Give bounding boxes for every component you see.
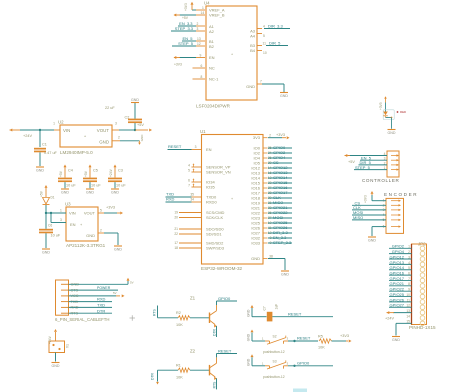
svg-text:VIN: VIN xyxy=(63,128,70,133)
svg-text:18: 18 xyxy=(174,246,178,250)
svg-text:9: 9 xyxy=(408,288,410,292)
svg-text:DTR: DTR xyxy=(97,308,105,313)
svg-text:+3V3: +3V3 xyxy=(174,63,182,67)
svg-text:VOUT: VOUT xyxy=(84,211,96,216)
svg-text:+24V: +24V xyxy=(23,134,32,138)
svg-text:GND: GND xyxy=(42,251,50,255)
svg-text:GPIO13: GPIO13 xyxy=(390,260,405,265)
svg-text:GND: GND xyxy=(86,191,94,195)
svg-text:+: + xyxy=(231,53,233,57)
svg-text:0.47 uF: 0.47 uF xyxy=(44,151,58,155)
svg-text:U3: U3 xyxy=(65,202,71,207)
svg-text:GPIO22: GPIO22 xyxy=(390,287,405,292)
svg-text:+5V: +5V xyxy=(348,160,355,164)
svg-text:+3V3: +3V3 xyxy=(340,334,349,338)
svg-text:RESET: RESET xyxy=(218,349,232,354)
svg-text:C5: C5 xyxy=(93,169,98,173)
svg-text:C1: C1 xyxy=(42,143,47,147)
svg-text:ESP32-WROOM-32: ESP32-WROOM-32 xyxy=(201,266,243,271)
svg-text:IO35: IO35 xyxy=(206,184,215,189)
svg-text:SWP/SD3: SWP/SD3 xyxy=(206,245,225,250)
svg-text:9: 9 xyxy=(200,54,202,58)
svg-text:3: 3 xyxy=(60,218,62,222)
svg-text:GND: GND xyxy=(368,239,376,243)
svg-text:8: 8 xyxy=(201,75,203,79)
svg-text:3: 3 xyxy=(384,157,386,161)
svg-text:SCK/CLK: SCK/CLK xyxy=(206,215,223,220)
svg-text:6: 6 xyxy=(201,64,203,68)
svg-text:3: 3 xyxy=(115,122,117,126)
svg-text:Z2: Z2 xyxy=(190,349,196,354)
svg-text:pushbutton-12: pushbutton-12 xyxy=(263,350,285,354)
svg-text:ENCODER: ENCODER xyxy=(384,192,418,197)
svg-text:2: 2 xyxy=(197,22,199,26)
svg-text:RESET: RESET xyxy=(297,336,311,341)
svg-text:+3V3: +3V3 xyxy=(364,195,368,203)
svg-text:5: 5 xyxy=(100,208,102,212)
svg-text:VIN: VIN xyxy=(69,211,76,216)
svg-text:2: 2 xyxy=(118,136,120,140)
svg-text:MISO: MISO xyxy=(353,215,363,220)
svg-text:POWER: POWER xyxy=(97,286,111,290)
svg-text:VOUT: VOUT xyxy=(97,128,110,133)
svg-text:GPIO4: GPIO4 xyxy=(392,249,405,254)
svg-text:RTS: RTS xyxy=(152,309,156,316)
svg-text:1uF: 1uF xyxy=(274,304,278,310)
svg-text:10 uF: 10 uF xyxy=(51,234,61,238)
svg-text:GPIO25: GPIO25 xyxy=(390,292,405,297)
svg-text:1: 1 xyxy=(202,6,204,10)
svg-text:GPIO12: GPIO12 xyxy=(390,254,405,259)
svg-text:11: 11 xyxy=(407,298,411,302)
svg-text:3V3: 3V3 xyxy=(253,135,261,140)
svg-text:7: 7 xyxy=(260,80,262,84)
svg-text:GPIO16: GPIO16 xyxy=(390,271,405,276)
svg-text:+3V3: +3V3 xyxy=(184,3,188,11)
svg-text:X1: X1 xyxy=(66,344,70,348)
svg-text:+24V: +24V xyxy=(109,168,113,177)
svg-text:C7: C7 xyxy=(263,306,267,310)
svg-text:GND: GND xyxy=(247,309,251,317)
svg-text:LM2940IMP-5.0: LM2940IMP-5.0 xyxy=(60,150,93,155)
svg-text:STEP_3.3: STEP_3.3 xyxy=(175,26,194,31)
svg-text:GPIO17: GPIO17 xyxy=(390,276,405,281)
svg-text:RED: RED xyxy=(400,110,406,114)
svg-text:4: 4 xyxy=(188,163,190,167)
svg-text:GND: GND xyxy=(247,358,251,366)
svg-text:GND: GND xyxy=(114,248,122,252)
svg-text:U4: U4 xyxy=(204,1,210,6)
svg-text:GND: GND xyxy=(280,94,288,98)
svg-text:10 uF: 10 uF xyxy=(116,184,126,188)
svg-text:C6: C6 xyxy=(48,224,52,228)
svg-text:VREF_B: VREF_B xyxy=(209,13,225,18)
svg-text:+5V: +5V xyxy=(84,170,88,177)
svg-text:GND: GND xyxy=(99,140,109,145)
svg-text:C2: C2 xyxy=(125,115,130,119)
svg-text:8: 8 xyxy=(408,282,410,286)
svg-text:22 uF: 22 uF xyxy=(105,106,115,110)
svg-text:B4: B4 xyxy=(250,48,256,53)
svg-text:+24V: +24V xyxy=(385,317,394,321)
svg-text:CONTROLLER: CONTROLLER xyxy=(362,178,399,183)
svg-text:5: 5 xyxy=(408,266,410,270)
svg-text:10: 10 xyxy=(263,51,267,55)
svg-text:10: 10 xyxy=(406,293,410,297)
svg-text:5V: 5V xyxy=(113,291,117,295)
svg-text:13: 13 xyxy=(197,37,201,41)
svg-text:13: 13 xyxy=(406,309,410,313)
svg-text:pushbutton-12: pushbutton-12 xyxy=(263,375,285,379)
svg-text:Z1: Z1 xyxy=(190,296,196,301)
svg-text:4: 4 xyxy=(263,25,265,29)
svg-text:SDI/SD1: SDI/SD1 xyxy=(206,231,222,236)
svg-text:+3V3: +3V3 xyxy=(106,205,115,209)
svg-text:GPIO27: GPIO27 xyxy=(390,303,405,308)
svg-text:LSF0204DIPWR: LSF0204DIPWR xyxy=(196,104,231,109)
svg-text:2: 2 xyxy=(408,250,410,254)
svg-text:14: 14 xyxy=(201,11,205,15)
svg-text:1: 1 xyxy=(60,208,62,212)
svg-text:B2: B2 xyxy=(209,44,215,49)
svg-text:RXD: RXD xyxy=(166,197,175,202)
svg-text:GND: GND xyxy=(251,256,260,261)
svg-text:+24V: +24V xyxy=(48,335,52,344)
svg-text:3: 3 xyxy=(195,145,197,149)
svg-text:+: + xyxy=(231,197,233,201)
svg-text:S3: S3 xyxy=(273,359,277,363)
svg-text:GPIO21: GPIO21 xyxy=(390,281,405,286)
svg-text:1: 1 xyxy=(53,122,55,126)
svg-text:DIR_5: DIR_5 xyxy=(269,41,281,46)
svg-text:GPIO0: GPIO0 xyxy=(297,360,310,365)
svg-text:AP2112K-3.3TRG1: AP2112K-3.3TRG1 xyxy=(66,243,106,248)
svg-text:1: 1 xyxy=(384,166,386,170)
svg-text:14: 14 xyxy=(406,314,410,318)
svg-text:38: 38 xyxy=(269,255,273,259)
svg-text:+3V3: +3V3 xyxy=(379,102,383,110)
svg-text:R5: R5 xyxy=(318,334,323,338)
svg-text:GND: GND xyxy=(61,191,69,195)
svg-text:4: 4 xyxy=(384,152,386,156)
svg-text:4: 4 xyxy=(408,261,410,265)
svg-text:15: 15 xyxy=(406,320,410,324)
svg-text:RTS: RTS xyxy=(212,381,216,388)
svg-text:GND: GND xyxy=(36,169,44,173)
svg-text:11: 11 xyxy=(263,42,267,46)
svg-text:19: 19 xyxy=(174,211,178,215)
svg-text:GND: GND xyxy=(140,134,144,142)
svg-text:5: 5 xyxy=(263,34,265,38)
svg-text:6: 6 xyxy=(188,178,190,182)
svg-text:DIR_3.3: DIR_3.3 xyxy=(268,24,283,29)
svg-text:10K: 10K xyxy=(176,323,183,327)
svg-text:U2: U2 xyxy=(58,120,64,125)
svg-text:17: 17 xyxy=(174,241,178,245)
svg-text:+5V: +5V xyxy=(59,170,63,177)
svg-text:+3V3: +3V3 xyxy=(276,133,285,137)
svg-text:U1: U1 xyxy=(200,129,206,134)
svg-text:GND: GND xyxy=(86,233,95,238)
svg-text:D1: D1 xyxy=(51,196,55,200)
svg-text:2: 2 xyxy=(384,161,386,165)
svg-text:R1: R1 xyxy=(176,363,181,367)
svg-text:DTR: DTR xyxy=(150,372,154,380)
svg-text:GND: GND xyxy=(131,98,139,102)
svg-text:STEP_5: STEP_5 xyxy=(178,41,194,46)
svg-text:GPIO26: GPIO26 xyxy=(390,297,405,302)
svg-text:A2: A2 xyxy=(209,29,215,34)
svg-text:7: 7 xyxy=(408,277,410,281)
svg-text:20: 20 xyxy=(174,216,178,220)
svg-text:EN: EN xyxy=(206,147,212,152)
svg-text:GND: GND xyxy=(111,191,119,195)
svg-text:EN: EN xyxy=(70,222,76,227)
svg-text:GND: GND xyxy=(388,131,396,135)
svg-text:S2: S2 xyxy=(273,335,277,339)
svg-text:STEP_5: STEP_5 xyxy=(355,165,371,170)
svg-text:A4: A4 xyxy=(250,34,256,39)
svg-text:22: 22 xyxy=(174,232,178,236)
svg-text:EN: EN xyxy=(209,55,215,60)
svg-text:3: 3 xyxy=(408,255,410,259)
svg-text:+5V: +5V xyxy=(40,190,44,197)
svg-text:R2: R2 xyxy=(176,311,181,315)
svg-text:DTR: DTR xyxy=(212,328,216,336)
svg-text:6_PIN_SERIAL_CABLEFTH: 6_PIN_SERIAL_CABLEFTH xyxy=(55,317,109,322)
svg-text:C4: C4 xyxy=(68,169,73,173)
svg-text:GPIO0: GPIO0 xyxy=(218,296,231,301)
svg-text:35: 35 xyxy=(190,193,194,197)
svg-text:GND: GND xyxy=(246,84,255,89)
svg-text:5V: 5V xyxy=(130,280,134,284)
svg-text:10 uF: 10 uF xyxy=(66,184,76,188)
svg-text:12: 12 xyxy=(406,304,410,308)
svg-text:+5V: +5V xyxy=(137,123,144,127)
svg-text:GND: GND xyxy=(392,338,400,342)
svg-text:5: 5 xyxy=(188,168,190,172)
svg-text:SENSOR_VN: SENSOR_VN xyxy=(206,169,231,174)
svg-text:7: 7 xyxy=(188,183,190,187)
svg-text:RXD0: RXD0 xyxy=(206,199,217,204)
svg-text:GND: GND xyxy=(52,364,60,368)
svg-text:12: 12 xyxy=(197,42,201,46)
svg-text:TXD: TXD xyxy=(97,303,105,308)
svg-text:10 uF: 10 uF xyxy=(91,184,101,188)
svg-text:RXD: RXD xyxy=(97,297,106,302)
svg-text:C3: C3 xyxy=(118,169,123,173)
svg-text:NC: NC xyxy=(209,66,215,71)
svg-text:3: 3 xyxy=(197,27,199,31)
svg-text:RESET: RESET xyxy=(168,144,182,149)
svg-text:10K: 10K xyxy=(176,375,183,379)
svg-text:STEP_3.3: STEP_3.3 xyxy=(273,240,292,245)
svg-text:PINHD-1X15: PINHD-1X15 xyxy=(409,325,436,330)
svg-text:1: 1 xyxy=(408,245,410,249)
svg-text:NC-1: NC-1 xyxy=(209,77,219,82)
svg-text:IO33: IO33 xyxy=(251,240,260,245)
svg-text:RESET: RESET xyxy=(288,312,302,317)
svg-text:10K: 10K xyxy=(318,345,325,349)
svg-text:21: 21 xyxy=(174,227,178,231)
svg-text:GPIO2: GPIO2 xyxy=(392,244,405,249)
svg-text:GND: GND xyxy=(281,273,289,277)
svg-text:GPIO14: GPIO14 xyxy=(390,265,405,270)
svg-text:2: 2 xyxy=(269,134,271,138)
svg-text:+5V: +5V xyxy=(182,16,189,20)
svg-text:6: 6 xyxy=(408,272,410,276)
svg-text:GND: GND xyxy=(247,333,251,341)
svg-text:34: 34 xyxy=(190,198,194,202)
svg-text:2: 2 xyxy=(100,228,102,232)
